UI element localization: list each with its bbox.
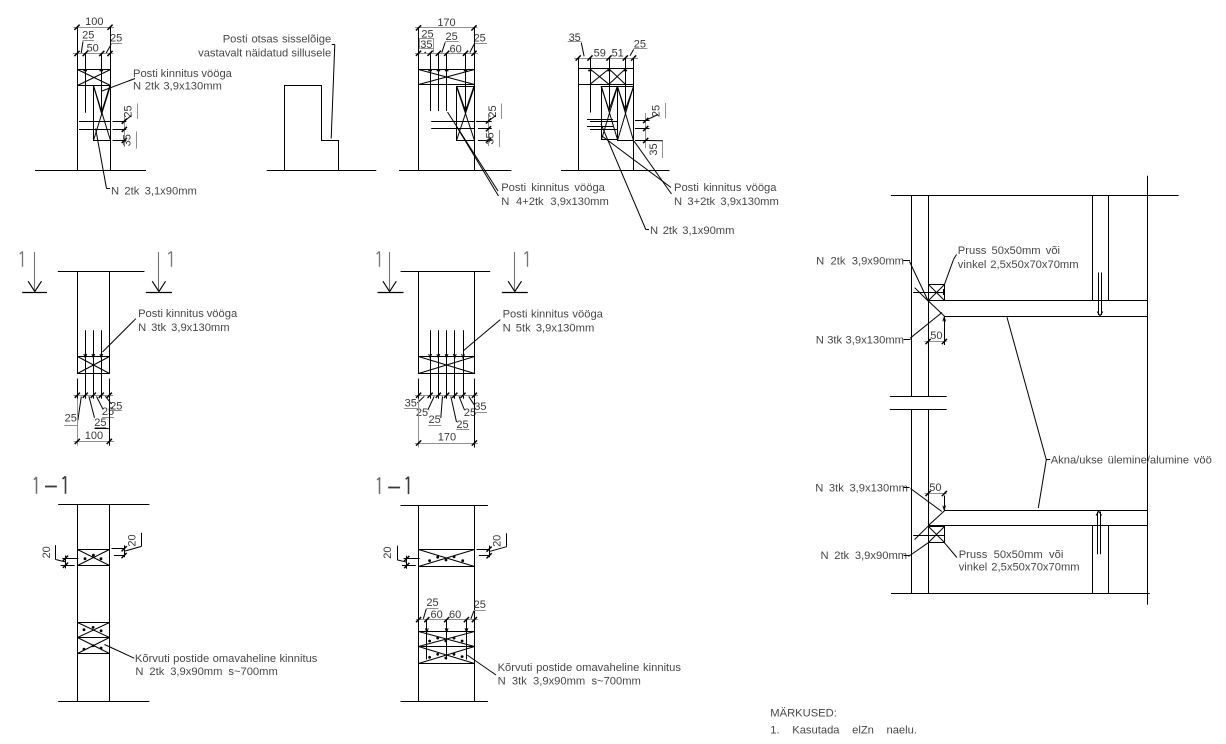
svg-text:N 2tk 3,1x90mm: N 2tk 3,1x90mm (650, 225, 734, 237)
svg-text:51: 51 (612, 47, 624, 59)
svg-text:25: 25 (428, 414, 440, 426)
svg-text:N 2tk 3,9x130mm: N 2tk 3,9x130mm (133, 81, 222, 93)
svg-text:N 4+2tk 3,9x130mm: N 4+2tk 3,9x130mm (501, 196, 609, 208)
svg-text:25: 25 (487, 105, 499, 117)
svg-text:20: 20 (382, 546, 394, 558)
svg-text:35: 35 (474, 401, 486, 413)
svg-text:N 3tk 3,9x90mm s~700mm: N 3tk 3,9x90mm s~700mm (498, 675, 641, 687)
svg-text:35: 35 (485, 132, 497, 144)
svg-text:20: 20 (491, 535, 503, 547)
svg-text:Pruss 50x50mm või: Pruss 50x50mm või (958, 245, 1060, 257)
svg-text:Posti otsas sisselõige: Posti otsas sisselõige (223, 34, 331, 46)
svg-text:N 3+2tk 3,9x130mm: N 3+2tk 3,9x130mm (674, 196, 779, 208)
svg-text:100: 100 (85, 16, 103, 28)
svg-text:MÄRKUSED:: MÄRKUSED: (770, 707, 837, 719)
svg-text:Posti kinnitus vööga: Posti kinnitus vööga (501, 182, 605, 194)
svg-text:25: 25 (474, 32, 486, 44)
svg-text:35: 35 (420, 39, 432, 51)
svg-text:170: 170 (438, 432, 456, 444)
svg-text:50: 50 (930, 330, 942, 342)
svg-text:Posti kinnitus vööga: Posti kinnitus vööga (138, 308, 238, 320)
svg-text:N 2tk 3,9x90mm s~700mm: N 2tk 3,9x90mm s~700mm (135, 666, 277, 678)
svg-text:25: 25 (110, 32, 122, 44)
svg-text:20: 20 (41, 546, 53, 558)
svg-text:50: 50 (929, 482, 941, 494)
svg-text:vastavalt näidatud sillusele: vastavalt näidatud sillusele (198, 48, 331, 60)
svg-text:25: 25 (65, 413, 77, 425)
svg-text:Posti kinnitus vööga: Posti kinnitus vööga (674, 182, 777, 194)
svg-text:vinkel 2,5x50x70x70mm: vinkel 2,5x50x70x70mm (958, 259, 1079, 271)
svg-text:100: 100 (85, 430, 103, 442)
svg-text:25: 25 (82, 30, 94, 42)
svg-text:35: 35 (122, 134, 134, 146)
svg-text:20: 20 (126, 534, 138, 546)
svg-text:Posti kinnitus vööga: Posti kinnitus vööga (133, 68, 233, 80)
svg-text:Akna/ukse ülemine/alumine vöö: Akna/ukse ülemine/alumine vöö (1051, 455, 1212, 467)
svg-text:25: 25 (416, 407, 428, 419)
svg-text:N 3tk 3,9x130mm: N 3tk 3,9x130mm (816, 334, 904, 346)
svg-text:25: 25 (123, 105, 135, 117)
svg-text:25: 25 (426, 597, 438, 609)
svg-text:vinkel 2,5x50x70x70mm: vinkel 2,5x50x70x70mm (959, 562, 1080, 574)
svg-text:N 2tk 3,1x90mm: N 2tk 3,1x90mm (111, 186, 197, 198)
svg-text:N 2tk 3,9x90mm: N 2tk 3,9x90mm (816, 256, 904, 268)
svg-text:N 3tk 3,9x130mm: N 3tk 3,9x130mm (138, 322, 229, 334)
svg-text:Kõrvuti postide omavaheline ki: Kõrvuti postide omavaheline kinnitus (135, 653, 318, 665)
svg-text:35: 35 (648, 143, 660, 155)
svg-text:Posti kinnitus vööga: Posti kinnitus vööga (503, 309, 604, 321)
svg-text:Pruss 50x50mm või: Pruss 50x50mm või (959, 549, 1064, 561)
svg-text:25: 25 (474, 599, 486, 611)
svg-text:Kõrvuti postide omavaheline ki: Kõrvuti postide omavaheline kinnitus (498, 662, 682, 674)
svg-text:N 5tk 3,9x130mm: N 5tk 3,9x130mm (503, 323, 595, 335)
svg-text:N 2tk 3,9x90mm: N 2tk 3,9x90mm (820, 550, 907, 562)
svg-text:59: 59 (594, 47, 606, 59)
svg-text:1. Kasutada elZn naelu.: 1. Kasutada elZn naelu. (770, 725, 917, 737)
svg-text:50: 50 (87, 43, 99, 55)
svg-text:N 3tk 3,9x130mm: N 3tk 3,9x130mm (815, 482, 908, 494)
